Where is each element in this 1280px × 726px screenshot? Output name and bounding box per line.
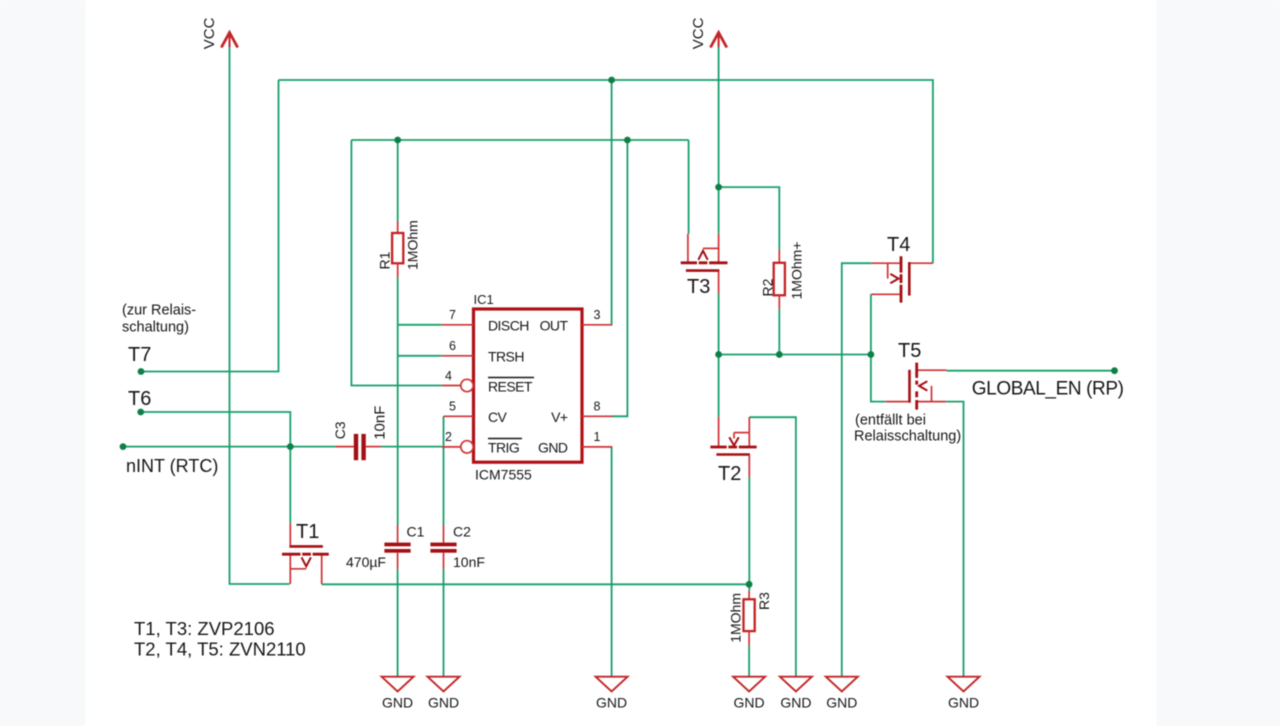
svg-text:T7: T7 bbox=[128, 344, 151, 366]
ground GND6 (T4) bbox=[826, 677, 858, 711]
svg-text:1MOhm: 1MOhm bbox=[728, 593, 744, 643]
ground GND7 (T5) bbox=[948, 677, 980, 711]
pin 5 CV stub bbox=[444, 415, 474, 417]
svg-text:R3: R3 bbox=[756, 592, 772, 610]
wire R3 bottom to GND bbox=[748, 646, 750, 677]
svg-text:GLOBAL_EN (RP): GLOBAL_EN (RP) bbox=[972, 378, 1124, 399]
wire node down to T2 drain bbox=[718, 355, 720, 417]
supply VCC (right) bbox=[690, 17, 727, 49]
svg-text:470µF: 470µF bbox=[346, 554, 386, 570]
svg-text:GND: GND bbox=[428, 695, 459, 711]
svg-text:T4: T4 bbox=[887, 234, 910, 256]
svg-text:GND: GND bbox=[596, 695, 627, 711]
svg-text:R1: R1 bbox=[377, 251, 393, 269]
wire T6 to T1 gate bbox=[141, 412, 291, 523]
svg-text:T1: T1 bbox=[296, 521, 319, 543]
ground GND3 (pin1) bbox=[596, 677, 628, 711]
node T6 end dot bbox=[137, 409, 144, 416]
wire node y=354.5 horizontal bbox=[719, 354, 871, 356]
transistor T3 (p-MOSFET, mirrored) bbox=[681, 234, 728, 294]
wire T5 drain to GLOBAL_EN bbox=[946, 370, 1114, 372]
pin 1 GND stub bbox=[582, 446, 612, 448]
svg-text:(zur Relais-: (zur Relais- bbox=[122, 303, 196, 319]
svg-text:10nF: 10nF bbox=[372, 406, 389, 440]
wire C3 right to TRIG bbox=[381, 446, 442, 448]
svg-text:10nF: 10nF bbox=[453, 554, 485, 570]
pin 4 RESET stub with bubble bbox=[442, 385, 461, 387]
svg-text:1MOhm+: 1MOhm+ bbox=[789, 242, 805, 300]
wire V+ pin8 up to y=140 bbox=[612, 140, 628, 416]
node junction dots bbox=[608, 77, 615, 84]
svg-text:GND: GND bbox=[734, 695, 765, 711]
svg-text:2: 2 bbox=[445, 430, 452, 444]
svg-text:GND: GND bbox=[538, 440, 568, 456]
svg-text:IC1: IC1 bbox=[474, 292, 494, 307]
wire VCC2 vertical to T3 source bbox=[718, 47, 720, 234]
svg-text:T3: T3 bbox=[687, 276, 710, 298]
wire to pin6 TRSH bbox=[398, 355, 442, 357]
pin 7 DISCH stub bbox=[442, 324, 474, 326]
pin 3 OUT stub bbox=[582, 324, 612, 326]
svg-text:V+: V+ bbox=[551, 409, 568, 425]
transistor T5 (n-MOSFET, rotated mirrored) bbox=[886, 363, 947, 410]
svg-text:T2, T4, T5: ZVN2110: T2, T4, T5: ZVN2110 bbox=[134, 638, 306, 659]
capacitor C1 bbox=[384, 525, 410, 569]
ground GND1 (C1) bbox=[382, 677, 414, 711]
svg-text:3: 3 bbox=[594, 308, 601, 322]
resistor R2 bbox=[774, 250, 785, 309]
wire nINT left segment bbox=[123, 446, 335, 448]
svg-text:DISCH: DISCH bbox=[488, 318, 529, 334]
wire CV pin5 down to C2 bbox=[443, 416, 445, 525]
svg-text:nINT (RTC): nINT (RTC) bbox=[126, 456, 218, 476]
wire R2 bottom to node bbox=[778, 309, 780, 355]
svg-text:CV: CV bbox=[488, 409, 508, 425]
svg-text:ICM7555: ICM7555 bbox=[475, 467, 532, 483]
wire OUT pin3 vertical bbox=[611, 80, 613, 325]
node nINT end dot bbox=[120, 443, 127, 450]
svg-text:C2: C2 bbox=[453, 524, 471, 540]
svg-text:4: 4 bbox=[445, 369, 452, 383]
svg-text:5: 5 bbox=[449, 400, 456, 414]
capacitor C3 (horizontal) bbox=[335, 434, 381, 460]
svg-text:TRSH: TRSH bbox=[488, 349, 524, 365]
svg-text:T1, T3: ZVP2106: T1, T3: ZVP2106 bbox=[134, 618, 275, 639]
svg-text:T5: T5 bbox=[898, 340, 921, 362]
resistor R1 bbox=[392, 221, 403, 278]
node GLOBAL_EN end dot bbox=[1111, 367, 1118, 374]
node T7 end dot bbox=[138, 368, 145, 375]
ground GND2 (C2) bbox=[428, 677, 460, 711]
svg-text:1: 1 bbox=[594, 430, 601, 444]
wire T7 to top net bbox=[141, 80, 279, 372]
svg-text:VCC: VCC bbox=[690, 17, 707, 49]
wire T4 drain down to T5 gate bbox=[871, 294, 886, 401]
wire net y=140 horizontal bbox=[351, 139, 688, 141]
transistor T2 (n-MOSFET) bbox=[710, 417, 756, 478]
wire y=140 to RESET pin4 bbox=[351, 140, 441, 386]
capacitor C2 bbox=[430, 525, 456, 569]
wire VCC node to R2 top bbox=[719, 187, 780, 250]
supply VCC (left) bbox=[201, 17, 238, 49]
wire T3 gate down to node bbox=[718, 294, 720, 355]
svg-text:TRIG: TRIG bbox=[488, 440, 519, 456]
pin 8 V+ stub bbox=[582, 415, 612, 417]
wire net OUT top horizontal y=80 and down to T4 gate bbox=[279, 80, 933, 263]
svg-text:7: 7 bbox=[449, 308, 456, 322]
svg-text:OUT: OUT bbox=[540, 318, 569, 334]
svg-text:C1: C1 bbox=[407, 524, 425, 540]
svg-text:R2: R2 bbox=[760, 278, 776, 296]
transistor T1 (p-MOSFET) bbox=[282, 523, 329, 584]
pin 2 TRIG stub with bubble bbox=[442, 446, 461, 448]
svg-text:Relaisschaltung): Relaisschaltung) bbox=[854, 428, 961, 444]
wire C2 bottom to GND bbox=[443, 569, 445, 677]
pin 6 TRSH stub bbox=[442, 355, 474, 357]
svg-text:1MOhm: 1MOhm bbox=[405, 220, 421, 270]
wire T1 drain to R3 node bbox=[322, 583, 749, 585]
wire R1 bottom to DISCH/TRSH and C1 bbox=[397, 278, 399, 525]
transistor T4 (n-MOSFET, rotated) bbox=[871, 256, 933, 302]
svg-text:schaltung): schaltung) bbox=[122, 320, 189, 336]
svg-text:6: 6 bbox=[449, 339, 456, 353]
svg-text:GND: GND bbox=[826, 695, 857, 711]
wire pin1 GND down bbox=[611, 447, 613, 677]
ground GND5 (T2) bbox=[780, 677, 812, 711]
wire T2 source to GND bbox=[749, 417, 796, 677]
svg-text:T6: T6 bbox=[128, 388, 151, 410]
svg-text:GND: GND bbox=[780, 695, 811, 711]
svg-text:GND: GND bbox=[382, 695, 413, 711]
ground GND4 (R3) bbox=[733, 677, 765, 711]
wire T2 gate down to R3 node bbox=[748, 477, 750, 591]
wire VCC1 vertical to T1 source bbox=[230, 47, 290, 584]
svg-text:(entfällt bei: (entfällt bei bbox=[855, 413, 926, 429]
svg-text:8: 8 bbox=[594, 400, 601, 414]
svg-text:GND: GND bbox=[948, 695, 979, 711]
wire T5 source to GND bbox=[946, 402, 963, 677]
svg-text:RESET: RESET bbox=[488, 379, 533, 395]
wire R1 top bbox=[397, 140, 399, 221]
svg-text:VCC: VCC bbox=[201, 17, 218, 49]
wire y=140 down to T3 drain bbox=[688, 140, 690, 234]
wire C1 bottom to GND bbox=[397, 569, 399, 677]
svg-text:C3: C3 bbox=[332, 421, 348, 439]
wire T4 source to GND rail bbox=[842, 263, 871, 677]
svg-text:T2: T2 bbox=[718, 463, 741, 485]
resistor R3 bbox=[744, 591, 755, 646]
IC op IC1 ICM7555 box bbox=[474, 309, 583, 462]
wire to pin7 DISCH bbox=[398, 324, 442, 326]
